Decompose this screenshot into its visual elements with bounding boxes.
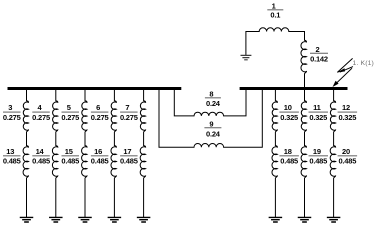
- svg-text:0.275: 0.275: [3, 113, 21, 122]
- reactor 9 tie link between buses: [159, 90, 262, 147]
- svg-text:16: 16: [94, 147, 102, 156]
- busbar left section: [8, 87, 182, 90]
- svg-text:0.325: 0.325: [309, 113, 327, 122]
- svg-text:0.1: 0.1: [270, 11, 280, 20]
- reactor 1 and reactor 2 source chain: [246, 28, 307, 88]
- label reactor 18: [279, 147, 299, 166]
- label reactor 15: [61, 147, 79, 166]
- label reactor 3: [3, 103, 21, 122]
- svg-text:8: 8: [209, 89, 213, 98]
- svg-text:4: 4: [38, 103, 43, 112]
- reactor branch 11 and 19 wire with coils: [301, 90, 306, 217]
- svg-text:0.142: 0.142: [310, 54, 328, 63]
- label reactor 2: [310, 45, 328, 63]
- label reactor 14: [32, 147, 50, 166]
- svg-text:0.325: 0.325: [338, 113, 356, 122]
- ground symbol branch 14: [49, 217, 63, 222]
- fault lightning arrow: [335, 58, 354, 85]
- label reactor 4: [32, 103, 50, 122]
- label reactor 10: [279, 103, 299, 122]
- busbar right section: [240, 87, 348, 90]
- reactor branch 7 and 17 wire with coils: [140, 90, 145, 217]
- svg-text:6: 6: [96, 103, 100, 112]
- lightning arrow head at bus: [333, 81, 339, 87]
- svg-text:0.485: 0.485: [91, 156, 109, 165]
- svg-text:0.485: 0.485: [61, 156, 79, 165]
- svg-text:0.275: 0.275: [91, 113, 109, 122]
- svg-text:0.485: 0.485: [309, 156, 327, 165]
- svg-text:1: 1: [272, 1, 276, 10]
- reactor 8 tie link between buses: [174, 90, 246, 116]
- reactor branch 12 and 20 wire with coils: [330, 90, 335, 217]
- svg-text:0.485: 0.485: [32, 156, 50, 165]
- svg-text:5: 5: [67, 103, 71, 112]
- svg-text:9: 9: [209, 119, 213, 128]
- svg-text:10: 10: [284, 103, 292, 112]
- svg-text:18: 18: [284, 147, 292, 156]
- reactor branch 6 and 16 wire with coils: [111, 90, 116, 217]
- svg-text:20: 20: [342, 147, 350, 156]
- ground symbol branch 17: [137, 217, 151, 222]
- label reactor 20: [338, 147, 358, 166]
- svg-text:17: 17: [123, 147, 131, 156]
- ground symbol branch 16: [108, 217, 122, 222]
- label reactor 13: [3, 147, 21, 166]
- ground symbol branch 18: [269, 217, 283, 222]
- svg-text:7: 7: [125, 103, 129, 112]
- label reactor 11: [309, 103, 329, 122]
- label reactor 12: [338, 103, 358, 122]
- svg-text:0.275: 0.275: [32, 113, 50, 122]
- svg-text:12: 12: [342, 103, 350, 112]
- label reactor 19: [309, 147, 329, 166]
- svg-text:3: 3: [8, 103, 12, 112]
- svg-text:0.275: 0.275: [61, 113, 79, 122]
- ground symbol branch 20: [327, 217, 341, 222]
- reactor branch 3 and 13 wire with coils: [23, 90, 28, 217]
- ground symbol branch 15: [78, 217, 92, 222]
- svg-text:0.485: 0.485: [338, 156, 356, 165]
- svg-text:1. K(1): 1. K(1): [353, 60, 374, 67]
- svg-text:0.24: 0.24: [206, 129, 221, 138]
- ground symbol branch 13: [20, 217, 34, 222]
- svg-text:14: 14: [36, 147, 45, 156]
- label reactor 9: [204, 119, 221, 138]
- svg-text:0.485: 0.485: [280, 156, 298, 165]
- svg-text:0.275: 0.275: [120, 113, 138, 122]
- lightning arrow mid wedge: [337, 68, 345, 72]
- reactor branch 5 and 15 wire with coils: [82, 90, 87, 217]
- label reactor 1: [267, 1, 283, 19]
- label reactor 7: [120, 103, 138, 122]
- label reactor 17: [120, 147, 138, 166]
- ground symbol for reactor 1: [241, 55, 252, 59]
- label reactor 16: [91, 147, 109, 166]
- svg-text:0.485: 0.485: [3, 156, 21, 165]
- label reactor 6: [91, 103, 109, 122]
- svg-text:15: 15: [65, 147, 73, 156]
- label reactor 5: [61, 103, 79, 122]
- svg-text:0.485: 0.485: [120, 156, 138, 165]
- reactor branch 10 and 18 wire with coils: [272, 90, 277, 217]
- svg-text:13: 13: [6, 147, 14, 156]
- label reactor 8: [205, 89, 221, 108]
- reactor branch 4 and 14 wire with coils: [52, 90, 57, 217]
- svg-text:0.325: 0.325: [280, 113, 298, 122]
- svg-text:19: 19: [313, 147, 321, 156]
- svg-text:0.24: 0.24: [206, 99, 221, 108]
- ground symbol branch 19: [298, 217, 312, 222]
- svg-text:11: 11: [313, 103, 321, 112]
